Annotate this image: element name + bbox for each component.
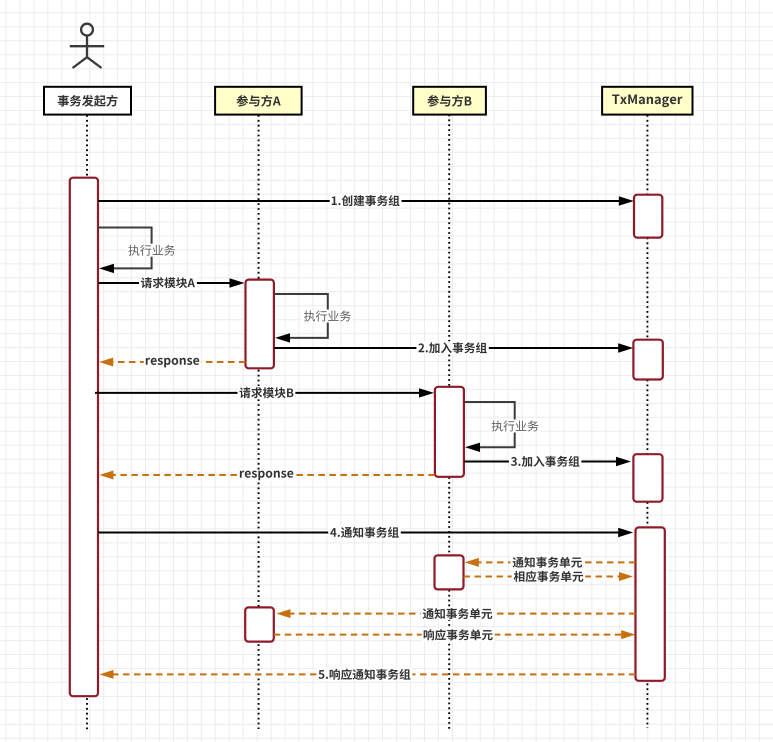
- label 1.创建事务组: [330, 194, 402, 207]
- label 通知事务单元 B: [511, 556, 585, 569]
- activation bar TxManager 4: [636, 527, 665, 680]
- label 响应事务单元: [422, 628, 495, 641]
- message 4.通知事务组: [98, 532, 620, 534]
- message 相应事务单元 (dashed): [464, 576, 621, 578]
- lifeline TxManager: [646, 115, 648, 728]
- self message 执行业务 on 参与方B: [464, 402, 515, 447]
- activation bar TxManager 3: [633, 454, 662, 502]
- message 请求模块B: [95, 392, 421, 394]
- lifeline 参与方B: [448, 115, 450, 730]
- activation bar 参与方B: [435, 387, 464, 477]
- self message 执行业务 on 参与方A: [274, 294, 328, 338]
- label 执行业务 2: [302, 310, 353, 323]
- label 3.加入事务组: [509, 455, 582, 468]
- label 5.响应通知事务组: [316, 668, 412, 681]
- message 请求模块A: [98, 282, 232, 284]
- label 2.加入事务组: [416, 341, 488, 354]
- label 相应事务单元: [512, 570, 586, 583]
- message 响应事务单元 (dashed): [274, 634, 622, 636]
- label 请求模块A: [139, 276, 197, 289]
- label 4.通知事务组: [328, 526, 401, 539]
- label 请求模块B: [238, 386, 296, 399]
- activation bar TxManager 1: [634, 195, 662, 238]
- actor: [70, 24, 104, 68]
- message response (dashed): [112, 361, 245, 363]
- label response 1: [144, 357, 201, 369]
- label 通知事务单元 A: [421, 607, 495, 620]
- label response 2: [238, 470, 295, 482]
- lifeline 参与方A: [258, 115, 260, 729]
- activation bar TxManager 2: [633, 340, 662, 380]
- header TxManager: [602, 87, 692, 115]
- label 执行业务 1: [126, 244, 177, 257]
- activation bar 参与方A: [246, 280, 274, 369]
- message 通知事务单元 to B (dashed): [478, 561, 636, 563]
- lifeline 事务发起方: [86, 115, 88, 731]
- message 1.创建事务组: [98, 200, 621, 202]
- message response 2 (dashed): [112, 474, 435, 476]
- message 通知事务单元 to A (dashed): [290, 613, 636, 615]
- activation bar 参与方A small: [245, 607, 274, 641]
- header 参与方B: [413, 87, 486, 115]
- message 5.响应通知事务组 (dashed): [113, 673, 636, 675]
- activation bar 事务发起方: [70, 178, 98, 697]
- label 执行业务 3: [490, 420, 541, 433]
- message 3.加入事务组: [464, 461, 618, 463]
- self message 执行业务 on 事务发起方: [98, 228, 152, 269]
- header 事务发起方: [44, 87, 131, 115]
- activation bar 参与方B small: [435, 555, 464, 589]
- message 2.加入事务组: [274, 347, 620, 349]
- header 参与方A: [215, 87, 302, 115]
